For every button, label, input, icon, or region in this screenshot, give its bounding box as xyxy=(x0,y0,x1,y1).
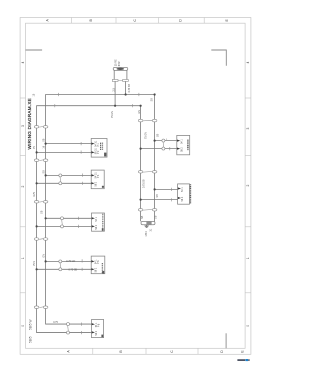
connector pair on right bus y210 xyxy=(138,209,157,212)
svg-text:1: 1 xyxy=(21,257,25,259)
connector pair on box5 branches xyxy=(67,323,70,335)
wire branch box6 lower xyxy=(141,148,177,150)
box X7 (connector block 7) xyxy=(178,184,191,204)
tick branch box7 upper xyxy=(171,188,173,191)
node branch box3 upper xyxy=(45,217,47,219)
grid tick right 3|2 xyxy=(245,154,251,156)
svg-text:54 1: 54 1 xyxy=(95,216,98,221)
fold mark top-right xyxy=(211,50,226,66)
box X5 (connector block 5) xyxy=(92,320,104,338)
svg-text:58 2: 58 2 xyxy=(95,224,98,229)
connector pair on bus y239 xyxy=(34,238,48,241)
node branch box1 lower xyxy=(36,151,38,153)
box X6 (connector block 6) xyxy=(177,135,190,154)
svg-text:SB: SB xyxy=(43,138,46,142)
tick branch box1 upper xyxy=(80,142,82,145)
node branch box7 upper xyxy=(154,188,156,190)
horn H1 body xyxy=(113,67,128,79)
wire tick W2 feed right xyxy=(132,104,134,107)
connector pair on box3 branches xyxy=(61,217,64,228)
node branch box1 upper xyxy=(45,143,47,145)
tick branch box3 upper xyxy=(78,217,80,220)
svg-text:2: 2 xyxy=(21,185,25,187)
svg-text:5B/5 W: 5B/5 W xyxy=(29,320,33,330)
svg-text:SB: SB xyxy=(41,210,44,214)
box X4 (connector block 4) xyxy=(91,256,105,274)
grid tick left 2|1 xyxy=(20,226,25,228)
wire branch box7 upper xyxy=(155,188,178,190)
wire tick W1 feed xyxy=(58,93,60,96)
wire branch box2 lower xyxy=(37,182,92,184)
svg-text:0.75: 0.75 xyxy=(33,191,36,196)
connector pair on right bus y120 xyxy=(138,119,157,122)
grid tick top B|C xyxy=(115,18,117,24)
node branch box7 lower xyxy=(140,199,142,201)
svg-text:67/2: 67/2 xyxy=(118,61,121,66)
svg-text:1: 1 xyxy=(246,257,250,259)
node branch box4 lower xyxy=(36,268,38,270)
box X3 (connector block 3) xyxy=(92,213,105,231)
svg-text:GN: GN xyxy=(42,254,45,258)
box X1 (connector block 1) xyxy=(91,139,107,158)
connector pair on box4 branches xyxy=(59,260,62,271)
grid tick bottom A|B xyxy=(92,348,94,354)
tick branch box4 lower xyxy=(81,268,83,271)
wire branch box1 lower xyxy=(37,151,92,153)
tick branch box4 upper xyxy=(81,259,83,262)
wire branch box3 lower xyxy=(37,225,92,227)
svg-text:SB: SB xyxy=(42,170,45,174)
grid tick top C|D xyxy=(158,18,160,24)
tick branch box1 lower xyxy=(80,151,82,154)
connector pair on bus y202 xyxy=(34,201,48,204)
wire bus left W1 (vertical + top feed) xyxy=(37,106,141,333)
node branch box6 lower xyxy=(140,148,142,150)
node branch box2 upper xyxy=(45,174,47,176)
svg-text:GN: GN xyxy=(138,110,141,114)
svg-text:SB: SB xyxy=(150,98,153,102)
node branch box6 upper xyxy=(154,140,156,142)
svg-text:M64: M64 xyxy=(144,231,148,237)
fold mark bottom-right xyxy=(225,333,227,348)
wire tick W1 feed right xyxy=(138,93,140,96)
wire bus left W2 (vertical + top feed) xyxy=(46,95,155,325)
wire branch box3 upper xyxy=(46,217,92,219)
node W1R top elbow xyxy=(140,105,142,107)
border frame outer xyxy=(20,18,251,355)
svg-text:0: 0 xyxy=(246,325,250,327)
wire branch box1 upper xyxy=(46,143,92,145)
svg-text:75 S: 75 S xyxy=(33,261,36,266)
node branch box3 lower xyxy=(36,225,38,227)
connector pair on bus y127 xyxy=(34,126,48,129)
svg-text:0.75 GN: 0.75 GN xyxy=(66,260,75,263)
logo watermark xyxy=(237,359,249,361)
grid tick top D|E xyxy=(203,18,205,24)
svg-text:2: 2 xyxy=(246,184,250,186)
svg-text:75 GN: 75 GN xyxy=(111,111,114,118)
svg-text:54 1: 54 1 xyxy=(180,139,183,144)
connector pair on right bus y172 xyxy=(138,171,157,174)
box X2 (connector block 2) xyxy=(91,170,104,189)
wire bus right W1R vertical xyxy=(140,106,142,222)
tick branch box5 upper xyxy=(80,323,82,326)
svg-text:SB: SB xyxy=(141,215,144,219)
horn connector pins xyxy=(112,80,128,82)
svg-text:3: 3 xyxy=(21,125,25,127)
node branch box2 lower xyxy=(36,182,38,184)
grid tick right 2|1 xyxy=(245,226,251,228)
svg-text:58 2: 58 2 xyxy=(95,267,98,272)
grid tick right 4|3 xyxy=(245,97,251,99)
grid tick bottom B|C xyxy=(145,348,147,354)
node horn left lead on W2 feed xyxy=(114,105,116,107)
wire horn right lead xyxy=(125,81,127,94)
node branch box4 upper xyxy=(45,260,47,262)
tick branch box3 lower xyxy=(78,225,80,228)
connector pair on box6 branches xyxy=(162,139,165,150)
svg-text:58 2: 58 2 xyxy=(95,181,98,186)
ground xyxy=(144,226,148,228)
wire branch box5 lower xyxy=(37,332,92,334)
connector pair on bus y160 xyxy=(34,159,48,162)
grid tick right 1|0 xyxy=(245,292,251,294)
wire branch box5 upper xyxy=(46,323,92,325)
svg-text:75 GN: 75 GN xyxy=(145,132,148,139)
fold mark top-left xyxy=(26,49,43,51)
node W2R top elbow xyxy=(154,93,156,95)
wire bus right W2R vertical xyxy=(154,95,156,222)
node horn right lead on W1 feed xyxy=(125,93,127,95)
tick branch box5 lower xyxy=(80,331,82,334)
wire branch box6 upper xyxy=(155,140,177,142)
svg-text:0.75 SB: 0.75 SB xyxy=(69,268,78,271)
svg-text:4: 4 xyxy=(246,61,250,63)
wire branch box7 lower xyxy=(141,199,178,201)
svg-text:4: 4 xyxy=(21,61,25,63)
svg-text:0: 0 xyxy=(21,325,25,327)
wire horn left lead xyxy=(114,81,116,105)
wire branch box2 upper xyxy=(46,174,92,176)
grid tick left 1|0 xyxy=(20,292,25,294)
svg-text:WIRING DIAGRAM.XE: WIRING DIAGRAM.XE xyxy=(27,98,32,149)
svg-text:0.75 SB: 0.75 SB xyxy=(128,84,131,93)
wire branch box4 lower xyxy=(37,268,92,270)
tick branch box6 lower xyxy=(169,147,171,150)
grid tick bottom C|D xyxy=(197,348,199,354)
svg-text:0.75: 0.75 xyxy=(53,321,58,324)
border frame inner xyxy=(26,23,246,348)
svg-text:SB: SB xyxy=(156,133,159,137)
lamp L1 (license plate lamp) xyxy=(141,221,155,224)
grid tick left 3|2 xyxy=(20,154,25,156)
svg-text:58 2: 58 2 xyxy=(95,330,98,335)
svg-text:0.75 SB: 0.75 SB xyxy=(143,179,146,188)
svg-text:3: 3 xyxy=(246,127,250,129)
tick branch box7 lower xyxy=(171,198,173,201)
connector pair on bus y307 xyxy=(34,306,48,309)
wire lamp ground lead xyxy=(146,225,148,226)
svg-text:SB: SB xyxy=(155,215,158,219)
grid tick left 4|3 xyxy=(20,97,25,99)
wire branch box4 upper xyxy=(46,260,92,262)
svg-text:54 1: 54 1 xyxy=(181,187,184,192)
svg-text:SB: SB xyxy=(156,194,159,198)
wire tick W2 feed xyxy=(54,104,56,107)
connector pair on box2 branches xyxy=(59,174,62,185)
svg-text:58 2: 58 2 xyxy=(180,147,183,152)
grid tick top A|B xyxy=(71,18,73,24)
svg-text:58 2: 58 2 xyxy=(181,196,184,201)
tick branch box2 upper xyxy=(82,174,84,177)
svg-text:5B/5: 5B/5 xyxy=(29,336,33,343)
tick branch box2 lower xyxy=(82,182,84,185)
